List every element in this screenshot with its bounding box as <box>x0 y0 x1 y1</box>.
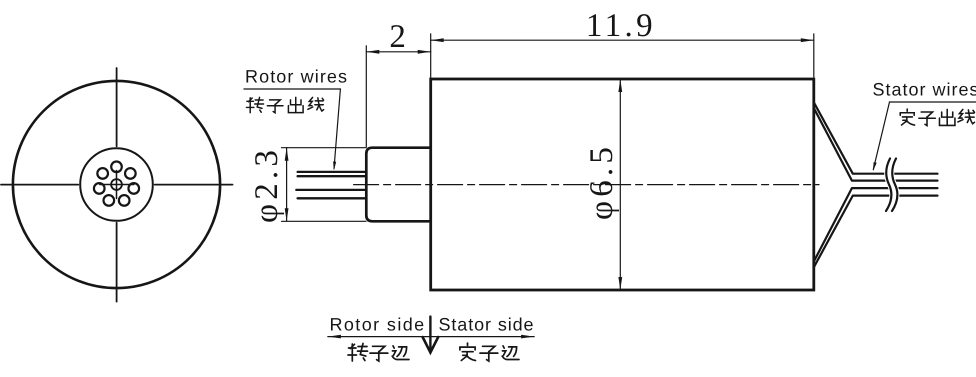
ext line top at y=147.7 <box>282 147 367 149</box>
front view inner circle <box>80 148 153 221</box>
wire hole circle right <box>128 183 139 194</box>
main body rectangle <box>431 79 814 290</box>
stator wire 1 (top) <box>814 102 938 173</box>
divider arrowhead V <box>423 337 439 353</box>
arrow bottom of phi6.5 <box>618 277 622 290</box>
leader line stator <box>873 102 889 170</box>
front view vertical centerline bottom segment <box>116 223 118 302</box>
wire break white gap <box>889 159 894 212</box>
arrow top of phi6.5 <box>618 79 622 92</box>
CJK 转子边 (rotor side chinese) <box>348 344 368 362</box>
underline Rotor wires <box>244 88 340 90</box>
wire hole circle bottom-left <box>104 195 115 206</box>
svg-text:2: 2 <box>389 19 406 55</box>
front view horizontal centerline left segment <box>1 184 78 186</box>
rotor wire 3 <box>296 189 366 191</box>
divider horizontal line <box>328 336 534 338</box>
front view horizontal centerline right segment <box>155 184 233 186</box>
divider arrow right <box>521 335 534 339</box>
ext line at x=813.8 <box>813 34 815 77</box>
CJK 转子出线 (rotor wires chinese) <box>246 97 263 112</box>
wire break curve 2 <box>892 159 897 212</box>
wire hole circle upper-right <box>125 168 136 179</box>
svg-text:Rotor side: Rotor side <box>330 315 426 335</box>
leader arrow rotor <box>333 161 336 170</box>
wire hole circle bottom-right <box>119 195 130 206</box>
dim line 2 <box>366 51 430 53</box>
side view centerline (dash-dot) <box>354 184 819 186</box>
rotor cap body <box>366 148 430 222</box>
arrow bottom of phi2.3 <box>285 208 289 221</box>
underline Stator wires <box>890 101 976 103</box>
arrow right of dim 11.9 <box>801 38 814 42</box>
leader line rotor <box>334 89 340 169</box>
rotor wire 4 <box>298 197 366 199</box>
stator wire 3 <box>814 188 938 262</box>
center target horizontal line <box>100 184 134 186</box>
svg-text:11.9: 11.9 <box>586 8 656 44</box>
arrow top of phi2.3 <box>285 148 289 161</box>
front view vertical centerline top segment <box>116 68 118 146</box>
svg-text:Stator wires: Stator wires <box>873 80 976 100</box>
svg-text:φ2.3: φ2.3 <box>249 146 285 223</box>
center target vertical line <box>116 171 118 199</box>
front view outer circle <box>13 81 220 288</box>
arrow left of dim 11.9 <box>431 38 444 42</box>
dim line phi6.5 <box>619 79 621 290</box>
ext line bottom at y=221.3 <box>282 220 367 222</box>
CJK 定子边 (stator side chinese) <box>460 343 476 360</box>
arrow left of dim 2 <box>366 50 379 54</box>
center target circle <box>111 179 122 190</box>
dim line phi2.3 <box>286 148 288 222</box>
wire hole circle left <box>94 183 105 194</box>
divider arrow left <box>328 335 341 339</box>
rotor wire 2 <box>298 175 366 177</box>
svg-text:Stator side: Stator side <box>439 315 535 335</box>
svg-text:φ6.5: φ6.5 <box>584 143 620 220</box>
wire hole circle upper-left <box>97 168 108 179</box>
wire hole circle top <box>111 162 122 173</box>
ext line at x=430.7 <box>430 34 432 78</box>
leader arrow stator <box>873 162 877 171</box>
stator wire 4 (bottom) <box>814 196 938 268</box>
arrow right of dim 2 <box>418 50 431 54</box>
ext line at x=366.3 <box>365 46 367 147</box>
stator wire 2 <box>814 108 938 181</box>
dim line 11.9 <box>431 39 814 41</box>
wire break curve 1 <box>886 159 891 212</box>
CJK 定子出线 (stator wires chinese) <box>900 109 914 125</box>
divider vertical line <box>429 317 431 352</box>
rotor wire 1 <box>298 171 366 173</box>
svg-text:Rotor wires: Rotor wires <box>245 67 348 87</box>
